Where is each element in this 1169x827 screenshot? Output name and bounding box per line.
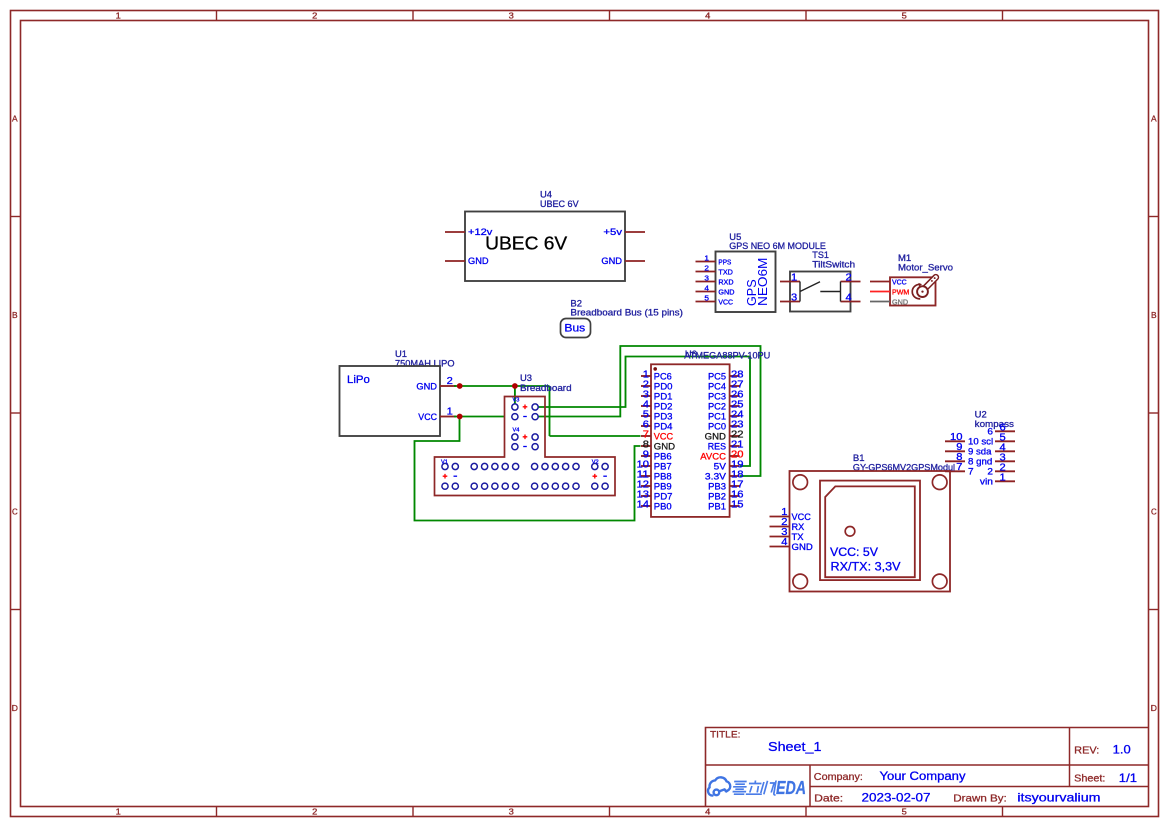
U3 base hole row1 col3: [471, 463, 477, 469]
U3 V3 minus-row right hole: [532, 414, 538, 420]
U3 base hole row1 col11: [563, 463, 569, 469]
U3 V3 minus sign: [523, 416, 527, 418]
U3 V3 plus-row right hole: [532, 404, 538, 410]
svg-text:VCC: VCC: [892, 279, 907, 286]
svg-text:Sheet_1: Sheet_1: [768, 739, 822, 754]
B2 bus symbol body: [561, 319, 591, 338]
U3 base hole row1 col4: [482, 463, 488, 469]
component M1 body: [890, 277, 936, 305]
U3 V3 plus sign: [523, 405, 528, 410]
U3 base hole row2 col4: [482, 483, 488, 489]
U3 V4 minus sign: [523, 446, 527, 448]
U6 pin 7 line: [641, 435, 651, 437]
U3 V4 minus-row right hole: [532, 444, 538, 450]
U6 pin 4 line: [641, 405, 651, 407]
svg-text:6: 6: [987, 427, 993, 437]
U2 pin 10 line: [945, 440, 965, 442]
U6 pin 8 line: [641, 445, 651, 447]
wire V3- to ATMEGA 3.3V pin18: [538, 346, 760, 476]
svg-text:PB6: PB6: [654, 451, 672, 461]
U3 V3 minus-row left hole: [512, 414, 518, 420]
junction dot on VCC wire at U1 pin1: [457, 414, 463, 420]
svg-text:PPS: PPS: [718, 259, 731, 266]
svg-text:D: D: [1151, 704, 1157, 713]
U6 pin 14 line: [641, 505, 651, 507]
junction dot on GND wire at breadboard stem: [512, 383, 518, 389]
svg-text:2023-02-07: 2023-02-07: [862, 791, 931, 804]
title block right column divider: [1069, 728, 1071, 787]
U6 pin 26 line: [730, 395, 740, 397]
svg-text:Bus: Bus: [564, 322, 585, 334]
junction dot on GND wire at U1 pin2: [457, 383, 463, 389]
U6 pin 18 line: [730, 475, 740, 477]
frame row tick left 2: [11, 412, 21, 414]
svg-text:+12v: +12v: [468, 227, 493, 237]
frame row tick left 1: [11, 216, 21, 218]
U3 V4 plus-row left hole: [512, 434, 518, 440]
frame column tick top 1: [216, 11, 218, 21]
EasyEDA logo cloud icon: [708, 777, 730, 795]
svg-text:GND: GND: [468, 256, 489, 266]
svg-text:GND: GND: [792, 542, 814, 552]
U6 pin 2 line: [641, 385, 651, 387]
svg-text:vin: vin: [980, 477, 993, 487]
component TS1 body: [790, 272, 851, 312]
U6 pin 1 line: [641, 375, 651, 377]
TS1 pin 4 line: [841, 301, 861, 303]
svg-text:REV:: REV:: [1074, 745, 1099, 756]
svg-text:VCC: VCC: [654, 431, 674, 441]
U6 pin 22 line: [730, 435, 740, 437]
component U1 body: [340, 366, 441, 436]
svg-text:PB0: PB0: [654, 501, 672, 511]
U3 base hole row2 col6: [502, 483, 508, 489]
frame row tick left 3: [11, 609, 21, 611]
svg-text:A: A: [12, 114, 18, 123]
svg-text:PC1: PC1: [708, 411, 726, 421]
svg-text:UBEC 6V: UBEC 6V: [485, 233, 568, 254]
U3 V4 minus-row left hole: [512, 444, 518, 450]
svg-text:PB2: PB2: [708, 491, 726, 501]
svg-text:3: 3: [704, 274, 709, 283]
svg-text:7: 7: [968, 467, 974, 477]
title block divider under company row: [810, 786, 1149, 788]
svg-text:TiltSwitch: TiltSwitch: [812, 259, 855, 269]
svg-text:4: 4: [705, 808, 711, 817]
svg-text:Your Company: Your Company: [880, 770, 966, 783]
wire V3+ to ATMEGA 5V pin19: [538, 357, 750, 467]
svg-text:GND: GND: [892, 299, 908, 306]
component U3 breadboard outline: [435, 397, 616, 496]
U3 base hole row1 col7: [513, 463, 519, 469]
svg-text:A: A: [1151, 114, 1157, 123]
U6 pin 15 line: [730, 505, 740, 507]
svg-text:GND: GND: [654, 441, 676, 451]
svg-text:8 gnd: 8 gnd: [968, 457, 992, 467]
U5 pin 1 line: [696, 261, 716, 263]
B1 antenna feed circle: [845, 527, 855, 537]
svg-text:PB8: PB8: [654, 471, 672, 481]
component U6 body: [651, 364, 730, 517]
U6 pin1 marker dot: [653, 367, 657, 371]
U3 V2 plus sign: [593, 474, 598, 479]
M1 pin PWM line: [870, 291, 890, 293]
svg-text:PD1: PD1: [654, 391, 673, 401]
U6 pin 27 line: [730, 385, 740, 387]
U4 pin GND left line: [445, 260, 465, 262]
svg-text:B: B: [1151, 311, 1157, 320]
U6 pin 16 line: [730, 495, 740, 497]
svg-text:4: 4: [781, 537, 788, 548]
U6 pin 28 line: [730, 375, 740, 377]
svg-text:NEO6M: NEO6M: [755, 258, 770, 306]
svg-text:AVCC: AVCC: [700, 451, 726, 461]
M1 servo horn icon: [912, 277, 936, 299]
frame column tick bottom 1: [216, 807, 218, 817]
U6 pin 20 line: [730, 455, 740, 457]
U3 base hole row1 col12: [573, 463, 579, 469]
U3 base hole row2 col13: [592, 483, 598, 489]
U2 pin 2 line: [995, 470, 1015, 472]
svg-text:2: 2: [312, 11, 318, 20]
svg-text:D: D: [12, 704, 18, 713]
B1 antenna outer square: [820, 481, 920, 580]
svg-text:PB7: PB7: [654, 461, 672, 471]
svg-text:LiPo: LiPo: [347, 374, 370, 386]
svg-text:PB3: PB3: [708, 481, 726, 491]
U3 base hole row2 col12: [573, 483, 579, 489]
svg-text:14: 14: [637, 500, 650, 511]
svg-text:1.0: 1.0: [1113, 744, 1131, 757]
title block outline: [706, 728, 1149, 807]
U6 pin 11 line: [641, 475, 651, 477]
svg-text:1: 1: [1000, 472, 1006, 483]
U3 base hole row2 col2: [452, 483, 458, 489]
svg-text:PWM: PWM: [892, 289, 909, 296]
svg-text:7: 7: [956, 462, 962, 473]
svg-text:PC5: PC5: [708, 371, 726, 381]
svg-text:C: C: [1151, 507, 1157, 516]
svg-text:V3: V3: [513, 397, 520, 403]
U3 V2 minus sign: [603, 475, 607, 477]
B1 mounting hole top-right: [932, 475, 947, 490]
U6 pin 23 line: [730, 425, 740, 427]
B1 mounting hole bottom-right: [932, 574, 947, 589]
title block logo cell divider: [809, 765, 811, 807]
svg-text:GND: GND: [416, 381, 437, 391]
U3 base hole row1 col2: [452, 463, 458, 469]
component B1 body: [790, 471, 951, 592]
U2 pin 3 line: [995, 460, 1015, 462]
U6 pin 19 line: [730, 465, 740, 467]
svg-text:C: C: [12, 507, 18, 516]
svg-text:VCC: VCC: [418, 412, 437, 422]
U3 V4 plus-row right hole: [532, 434, 538, 440]
svg-text:1: 1: [447, 407, 453, 418]
B1 pin 4 line: [770, 546, 790, 548]
U3 base hole row2 col3: [471, 483, 477, 489]
U4 pin GND right line: [625, 260, 645, 262]
svg-text:Date:: Date:: [814, 793, 843, 804]
wire VCC net: U1 pin1 to breadboard V3 and ATMEGA GND pin8: [415, 417, 641, 521]
TS1 pin 1 line: [780, 281, 800, 283]
EasyEDA logo text 嘉立创 (drawn strokes): [732, 781, 777, 796]
U2 pin 6 line: [995, 430, 1015, 432]
svg-text:PD2: PD2: [654, 401, 673, 411]
U5 pin 5 line: [696, 301, 716, 303]
svg-text:GND: GND: [705, 431, 727, 441]
component U4 UBEC 6V body: [465, 212, 625, 282]
svg-text:Motor_Servo: Motor_Servo: [898, 262, 953, 272]
svg-text:Breadboard Bus (15 pins): Breadboard Bus (15 pins): [570, 308, 683, 318]
U3 V3 plus-row left hole: [512, 404, 518, 410]
U3 base hole row2 col8: [532, 483, 538, 489]
svg-text:RX/TX: 3,3V: RX/TX: 3,3V: [831, 560, 901, 574]
svg-text:2: 2: [704, 264, 709, 273]
U3 base hole row2 col9: [542, 483, 548, 489]
svg-text:RX: RX: [792, 522, 805, 532]
svg-text:VCC: VCC: [792, 512, 812, 522]
svg-text:1: 1: [116, 808, 122, 817]
svg-text:+5v: +5v: [603, 227, 622, 237]
B1 pin 1 line: [770, 516, 790, 518]
TS1 pin 3 line: [780, 301, 800, 303]
U5 pin 3 line: [696, 281, 716, 283]
U3 base hole row2 col10: [552, 483, 558, 489]
frame column tick bottom 4: [805, 807, 807, 817]
svg-text:Breadboard: Breadboard: [520, 383, 572, 393]
svg-text:5: 5: [704, 294, 709, 303]
U3 base hole row1 col8: [532, 463, 538, 469]
svg-text:PB9: PB9: [654, 481, 672, 491]
U3 base hole row1 col13: [592, 463, 598, 469]
svg-text:TXD: TXD: [718, 269, 733, 276]
frame column tick top 4: [805, 11, 807, 21]
svg-text:PC6: PC6: [654, 371, 672, 381]
svg-text:UBEC 6V: UBEC 6V: [540, 199, 579, 209]
frame row tick right 1: [1149, 216, 1159, 218]
U6 pin 5 line: [641, 415, 651, 417]
svg-text:1: 1: [704, 254, 709, 263]
svg-text:3: 3: [791, 293, 798, 304]
svg-text:5: 5: [902, 11, 908, 20]
frame column tick top 2: [412, 11, 414, 21]
svg-text:1: 1: [116, 11, 122, 20]
svg-text:TX: TX: [792, 532, 804, 542]
svg-text:RES: RES: [708, 441, 726, 451]
M1 pin GND line: [870, 301, 890, 303]
svg-text:5: 5: [902, 808, 908, 817]
U3 base hole row1 col14: [602, 463, 608, 469]
svg-text:2: 2: [846, 272, 852, 283]
svg-text:2: 2: [987, 467, 993, 477]
svg-text:PC2: PC2: [708, 401, 726, 411]
U2 pin 8 line: [945, 460, 965, 462]
U3 base hole row2 col1: [442, 483, 448, 489]
svg-text:4: 4: [846, 293, 853, 304]
svg-text:PD3: PD3: [654, 411, 673, 421]
TS1 switch contacts and lever: [800, 282, 841, 302]
svg-text:PB1: PB1: [708, 501, 726, 511]
frame row tick right 3: [1149, 609, 1159, 611]
U3 base hole row1 col1: [442, 463, 448, 469]
U6 pin 9 line: [641, 455, 651, 457]
svg-text:ATMEGA88PV-10PU: ATMEGA88PV-10PU: [684, 351, 770, 361]
svg-text:3: 3: [509, 11, 515, 20]
frame column tick bottom 5: [1002, 807, 1004, 817]
U3 base hole row2 col5: [492, 483, 498, 489]
title block divider under title row: [706, 764, 1149, 766]
U6 pin 13 line: [641, 495, 651, 497]
svg-text:5V: 5V: [714, 461, 727, 471]
svg-text:GND: GND: [601, 256, 622, 266]
frame row tick right 2: [1149, 412, 1159, 414]
U6 pin 21 line: [730, 445, 740, 447]
U2 pin 9 line: [945, 450, 965, 452]
U6 pin 17 line: [730, 485, 740, 487]
svg-text:VCC: 5V: VCC: 5V: [830, 545, 878, 559]
svg-text:2: 2: [447, 376, 453, 387]
U6 pin 6 line: [641, 425, 651, 427]
svg-text:3: 3: [509, 808, 515, 817]
U2 pin 1 line: [995, 480, 1015, 482]
frame column tick top 3: [609, 11, 611, 21]
svg-text:U3: U3: [520, 373, 532, 383]
U3 base hole row1 col6: [502, 463, 508, 469]
svg-text:15: 15: [731, 500, 744, 511]
M1 pin VCC line: [870, 281, 890, 283]
svg-text:GND: GND: [718, 289, 734, 296]
U5 pin 4 line: [696, 291, 716, 293]
svg-text:itsyourvalium: itsyourvalium: [1017, 791, 1100, 804]
B1 pin 2 line: [770, 526, 790, 528]
svg-text:Sheet:: Sheet:: [1074, 774, 1105, 785]
frame column tick bottom 2: [412, 807, 414, 817]
B1 pin 3 line: [770, 536, 790, 538]
component U5 body: [716, 252, 776, 313]
U4 pin +5v line: [625, 231, 645, 233]
svg-text:4: 4: [704, 284, 709, 293]
U1 pin 2 GND line: [440, 385, 456, 387]
B1 antenna inner square with chamfer: [825, 486, 915, 577]
U3 base hole row1 col9: [542, 463, 548, 469]
U2 pin 7 line: [945, 470, 965, 472]
wire GND net: U1 pin2 to breadboard stem and ATMEGA VCC pin7: [454, 386, 641, 436]
U4 pin +12v line: [445, 231, 465, 233]
U6 pin 10 line: [641, 465, 651, 467]
U3 base hole row2 col14: [602, 483, 608, 489]
svg-text:Drawn By:: Drawn By:: [953, 793, 1007, 804]
U3 base hole row2 col7: [513, 483, 519, 489]
U3 base hole row1 col10: [552, 463, 558, 469]
TS1 pin 2 line: [841, 281, 861, 283]
U2 pin 5 line: [995, 440, 1015, 442]
U3 V1 plus sign: [443, 474, 448, 479]
svg-text:TITLE:: TITLE:: [710, 729, 740, 740]
svg-text:EDA: EDA: [776, 778, 806, 798]
B1 mounting hole top-left: [793, 475, 808, 490]
svg-text:PC3: PC3: [708, 391, 726, 401]
U2 pin 4 line: [995, 450, 1015, 452]
svg-text:PD4: PD4: [654, 421, 673, 431]
svg-text:V4: V4: [513, 427, 520, 433]
U6 pin 25 line: [730, 405, 740, 407]
U6 pin 3 line: [641, 395, 651, 397]
U1 pin 1 VCC line: [440, 416, 456, 418]
U3 V4 plus sign: [523, 435, 528, 440]
svg-text:3.3V: 3.3V: [705, 471, 727, 481]
svg-text:B: B: [12, 311, 18, 320]
svg-text:PD7: PD7: [654, 491, 673, 501]
U3 V1 minus sign: [454, 475, 458, 477]
svg-text:RXD: RXD: [718, 279, 733, 286]
U3 base hole row2 col11: [563, 483, 569, 489]
svg-text:Company:: Company:: [814, 772, 863, 783]
svg-text:PC0: PC0: [708, 421, 726, 431]
svg-text:10 scl: 10 scl: [968, 437, 993, 447]
B1 mounting hole bottom-left: [793, 574, 808, 589]
svg-text:1/1: 1/1: [1119, 772, 1137, 785]
svg-text:kompass: kompass: [975, 419, 1015, 429]
svg-text:1: 1: [791, 272, 797, 283]
svg-text:VCC: VCC: [718, 299, 733, 306]
svg-text:9 sda: 9 sda: [968, 447, 991, 457]
U3 base hole row1 col5: [492, 463, 498, 469]
svg-text:PC4: PC4: [708, 381, 726, 391]
U6 pin 12 line: [641, 485, 651, 487]
frame column tick bottom 3: [609, 807, 611, 817]
U6 pin 24 line: [730, 415, 740, 417]
svg-text:4: 4: [705, 11, 711, 20]
svg-text:PD0: PD0: [654, 381, 673, 391]
U5 pin 2 line: [696, 271, 716, 273]
frame column tick top 5: [1002, 11, 1004, 21]
svg-text:2: 2: [312, 808, 318, 817]
